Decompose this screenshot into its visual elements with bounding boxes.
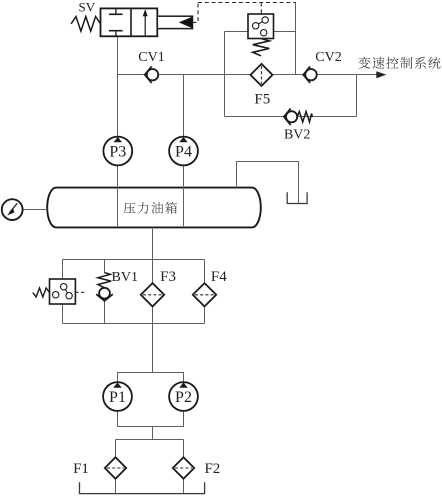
svg-text:P2: P2: [175, 389, 192, 406]
suction tank container: [80, 482, 205, 493]
filter F1: [105, 457, 126, 478]
wire F2 branch to tank: [183, 440, 185, 494]
filter F4: [193, 283, 216, 306]
wire tank bottom to filter bank and P1P2: [152, 227, 154, 372]
wire relief valve right vertical to main line: [295, 3, 297, 75]
wire pumps to suction filters: [152, 427, 154, 440]
pilot relief valve spring: [253, 39, 270, 56]
wire BV2 right vertical to main line: [356, 75, 358, 117]
check valve CV1: [145, 66, 159, 83]
wire P1 P2 top rail: [118, 373, 184, 383]
tank label 压力油箱: [124, 202, 177, 214]
pump P4: [169, 137, 198, 166]
wire relief valve left connection: [225, 31, 249, 33]
pump P3: [103, 137, 132, 166]
arrow to transmission control system: [376, 71, 386, 78]
svg-text:P4: P4: [175, 143, 192, 160]
wire filter bank top rail: [63, 259, 205, 261]
SV left cell blocked ports: [109, 13, 123, 15]
filter F2: [173, 457, 194, 478]
svg-text:CV2: CV2: [315, 50, 341, 65]
wire main line to P4 vertical: [183, 75, 185, 137]
wire BV2 bypass line: [225, 116, 357, 118]
pressure gauge: [2, 199, 23, 220]
pilot relief valve balls: [262, 17, 268, 23]
wire P3 to tank: [117, 166, 119, 228]
svg-text:F5: F5: [254, 91, 270, 107]
pilot dashed line top horizontal: [198, 2, 296, 4]
vent drain container: [287, 192, 307, 203]
svg-text:F2: F2: [204, 461, 220, 477]
unloader valve spring: [33, 288, 50, 297]
unloader valve pilot stub: [75, 291, 84, 293]
SV right cell flow arrow: [144, 13, 146, 36]
svg-text:P3: P3: [109, 143, 126, 160]
wire unload valve branch: [62, 260, 64, 280]
filter F3: [141, 283, 164, 306]
unloader valve body: [50, 279, 76, 304]
wire F1 F2 rail: [116, 439, 184, 441]
wire P4 to tank: [183, 166, 185, 228]
wire F1 branch to tank: [115, 440, 117, 494]
pump P2: [169, 382, 198, 411]
svg-text:F4: F4: [211, 269, 227, 285]
unloader valve balls: [61, 284, 67, 290]
pump P1: [103, 382, 132, 411]
solenoid valve SV body: [101, 8, 158, 36]
wire tank vent line: [237, 162, 299, 204]
filter F5: [251, 64, 273, 86]
wire relief/BV2 left vertical: [224, 32, 226, 117]
svg-text:CV1: CV1: [138, 50, 164, 65]
svg-text:SV: SV: [78, 0, 95, 14]
wire P1 P2 bottom rail: [118, 411, 184, 427]
svg-text:BV2: BV2: [284, 128, 310, 143]
pressure oil tank 压力油箱: [47, 188, 261, 228]
SV return spring: [71, 17, 100, 32]
ball valve BV1: [96, 273, 113, 301]
svg-text:BV1: BV1: [112, 270, 138, 285]
pilot dashed stub into pilot relief valve: [260, 3, 262, 14]
output label 变速控制系统: [358, 57, 440, 69]
wire main horizontal line through CV1 F5 CV2: [118, 74, 378, 76]
svg-text:P1: P1: [109, 389, 126, 406]
wire filter bank bottom rail: [63, 323, 205, 325]
wire BV1 branch: [104, 260, 106, 273]
pilot dashed line from solenoid: [193, 3, 199, 23]
wire gauge to tank: [22, 209, 48, 211]
wire relief valve right connection: [274, 31, 296, 33]
svg-text:F1: F1: [73, 461, 89, 477]
svg-text:F3: F3: [160, 269, 176, 285]
check valve CV2: [303, 66, 316, 83]
wire F4 branch: [204, 260, 206, 324]
SV solenoid actuator: [157, 16, 192, 28]
wire SV valve to P3 vertical: [117, 36, 119, 136]
ball valve BV2: [284, 109, 313, 126]
pilot relief valve body: [248, 14, 274, 39]
